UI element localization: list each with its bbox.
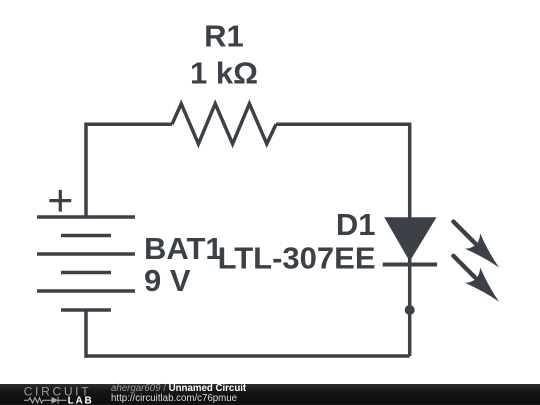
svg-text:D1: D1 (336, 207, 376, 242)
svg-text:LAB: LAB (68, 396, 94, 405)
logo squiggle: wire + resistor + diode (24, 397, 67, 404)
circuitlab logo (0, 384, 100, 405)
wire bottom horizontal (86, 354, 410, 358)
junction dot (405, 305, 415, 315)
svg-text:LTL-307EE: LTL-307EE (218, 241, 376, 276)
LED arrow 2 (453, 256, 506, 310)
wire top-right horizontal (276, 123, 410, 127)
wire top-left horizontal (86, 123, 172, 127)
wire bottom-left vertical (84, 310, 88, 358)
LED arrow 1 (453, 222, 506, 276)
wire right vertical (408, 123, 412, 357)
svg-text:9 V: 9 V (144, 263, 191, 298)
battery BAT1 (37, 217, 135, 310)
LED D1 triangle (385, 218, 436, 261)
battery plus sign (49, 190, 71, 212)
svg-text:R1: R1 (204, 19, 244, 54)
resistor R1 (172, 104, 276, 144)
svg-text:BAT1: BAT1 (144, 231, 223, 266)
svg-text:1 kΩ: 1 kΩ (190, 55, 258, 90)
footer bar (0, 384, 540, 405)
LED D1 cathode bar (383, 263, 437, 267)
wire top-left vertical (84, 123, 88, 218)
